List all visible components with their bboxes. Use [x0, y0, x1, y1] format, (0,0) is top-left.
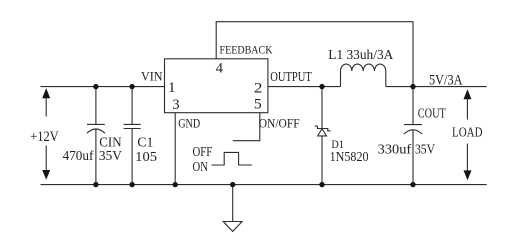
svg-text:470uf: 470uf [63, 149, 94, 164]
svg-text:330uf: 330uf [378, 142, 412, 157]
svg-text:D1: D1 [331, 137, 344, 151]
svg-text:OUTPUT: OUTPUT [270, 69, 312, 84]
svg-text:2: 2 [254, 81, 263, 97]
svg-text:ON/OFF: ON/OFF [259, 116, 300, 131]
svg-text:COUT: COUT [418, 107, 446, 122]
svg-text:VIN: VIN [141, 69, 163, 83]
svg-text:L1 33uh/3A: L1 33uh/3A [328, 48, 394, 63]
svg-text:ON: ON [193, 160, 209, 175]
svg-text:3: 3 [173, 97, 180, 113]
svg-text:GND: GND [178, 116, 200, 131]
svg-text:35V: 35V [99, 149, 122, 164]
svg-text:C1: C1 [137, 135, 153, 150]
svg-text:+12V: +12V [30, 129, 59, 145]
svg-text:105: 105 [135, 150, 157, 165]
svg-text:4: 4 [216, 61, 224, 77]
svg-text:35V: 35V [415, 142, 435, 157]
svg-text:1N5820: 1N5820 [330, 150, 369, 165]
svg-text:5V/3A: 5V/3A [429, 72, 463, 88]
svg-text:5: 5 [254, 96, 262, 112]
svg-text:LOAD: LOAD [452, 126, 483, 141]
svg-text:OFF: OFF [193, 145, 213, 160]
svg-text:1: 1 [168, 80, 176, 96]
svg-text:FEEDBACK: FEEDBACK [220, 42, 273, 56]
